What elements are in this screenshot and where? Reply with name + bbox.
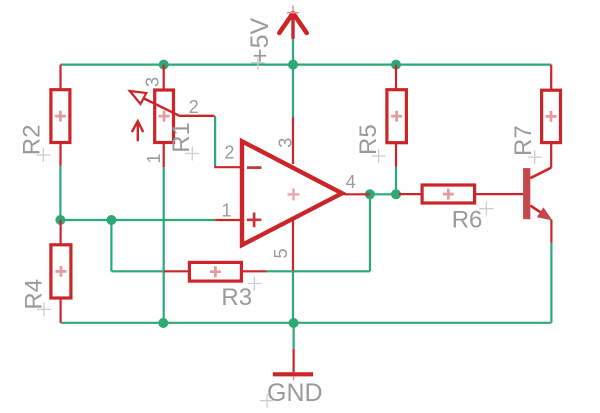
origin cross R6 xyxy=(479,202,493,216)
op-amp U1 triangle xyxy=(242,141,342,245)
wire output node xyxy=(370,193,401,195)
node junction left B xyxy=(106,215,116,225)
potentiometer R1 xyxy=(130,65,215,168)
wire R1 pin2 vertical xyxy=(214,116,216,167)
svg-text:3: 3 xyxy=(276,138,296,148)
origin cross R5 xyxy=(372,149,386,163)
wire R1 pin1 column xyxy=(163,167,165,323)
node junction output xyxy=(365,189,375,199)
svg-text:R2: R2 xyxy=(19,125,46,156)
node junction top R1 xyxy=(159,60,169,70)
transistor Q1 emitter line xyxy=(530,206,543,214)
origin cross R4 xyxy=(37,302,51,316)
op-amp U1 plus mark xyxy=(247,213,261,228)
wire op-amp pin 5 to bottom bus xyxy=(292,270,294,323)
resistor R4 xyxy=(51,220,71,323)
origin cross R7 xyxy=(528,150,542,164)
svg-text:R3: R3 xyxy=(221,284,252,311)
op-amp U1 pin 1 stub xyxy=(215,219,242,221)
wire node B down xyxy=(110,220,112,271)
op-amp U1 minus mark xyxy=(247,166,262,169)
origin cross GND xyxy=(260,394,274,408)
wire feedback down xyxy=(369,194,371,271)
svg-text:4: 4 xyxy=(346,172,356,192)
resistor R2 xyxy=(51,65,70,166)
svg-text:2: 2 xyxy=(224,143,234,163)
transistor Q1 base bar xyxy=(523,168,530,219)
wire R5 bottom to output xyxy=(395,167,397,194)
op-amp U1 origin cross xyxy=(288,188,300,200)
node junction left A xyxy=(55,215,65,225)
node junction R5 bottom xyxy=(391,189,401,199)
wiper diagonal and tail xyxy=(143,98,214,116)
node junction top R5 xyxy=(391,60,401,70)
svg-text:R6: R6 xyxy=(452,207,483,234)
adjust arrow xyxy=(132,121,143,141)
transistor Q1 emitter stub xyxy=(550,220,552,243)
svg-text:1: 1 xyxy=(144,153,164,163)
svg-text:R7: R7 xyxy=(510,125,537,156)
resistor R7 xyxy=(542,65,561,168)
origin cross R2 xyxy=(36,148,50,162)
svg-text:3: 3 xyxy=(142,77,162,87)
svg-text:5: 5 xyxy=(271,248,291,258)
svg-text:2: 2 xyxy=(189,97,199,117)
resistor R3 xyxy=(164,262,267,281)
resistor R5 xyxy=(387,65,407,167)
resistor R6 xyxy=(399,185,523,203)
wire emitter column xyxy=(550,243,552,323)
op-amp U1 pin 3 stub xyxy=(292,117,294,164)
transistor Q1 emitter arrowhead xyxy=(538,208,552,220)
node junction bus GND xyxy=(289,318,299,328)
svg-text:GND: GND xyxy=(267,379,323,407)
transistor Q1 collector xyxy=(530,168,551,179)
svg-text:R1: R1 xyxy=(168,122,195,153)
wire top +5V bus xyxy=(61,63,552,65)
wiper open arrowhead xyxy=(130,91,147,104)
node junction bus R1 xyxy=(158,318,168,328)
origin cross +5V xyxy=(251,56,265,70)
node junction top +5V xyxy=(288,60,298,70)
wire R2 to node A xyxy=(59,166,61,221)
origin cross R3 xyxy=(247,277,261,291)
op-amp U1 output pin 4 stub xyxy=(344,193,370,195)
wire to R3 left xyxy=(111,270,164,272)
wire bottom GND bus xyxy=(61,322,552,324)
origin cross R1 xyxy=(185,147,199,161)
supply +5V arrow xyxy=(279,6,306,39)
wire GND stem green xyxy=(293,323,295,349)
transistor Q1 base pin wire xyxy=(522,193,524,195)
svg-text:+5V: +5V xyxy=(246,17,274,63)
wire mid column to op-amp pin 3 xyxy=(292,65,294,118)
svg-text:1: 1 xyxy=(222,201,232,221)
ground GND symbol xyxy=(273,349,313,381)
op-amp U1 pin 2 stub xyxy=(214,166,242,168)
wire node row to op-amp pin 1 xyxy=(60,219,215,221)
wire feedback to R3 right xyxy=(267,270,370,272)
wire +5V stem xyxy=(292,39,294,65)
op-amp U1 pin 5 stub xyxy=(292,218,294,271)
